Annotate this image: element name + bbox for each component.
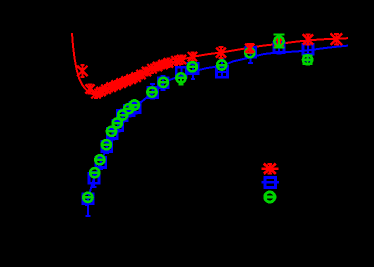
red X data point 3 at (96,93.8) with error bar — [91, 89, 100, 98]
red X data point 14 at (152,68.8) with error bar — [147, 64, 156, 73]
blue square data point 10 at (152.7,92.5) with error bar — [148, 84, 158, 98]
legend: red X sample — [262, 164, 279, 174]
blue square data point 2 at (94,178.3) with error bar — [89, 172, 99, 187]
legend: blue square sample — [262, 178, 280, 188]
blue square data point 3 at (100.7,162.5) with error bar — [96, 156, 106, 169]
red X data point 8 at (121,83.2) with error bar — [116, 79, 125, 88]
green circle data point 6 at (117.3,123) with error bar — [113, 118, 122, 127]
red X data point 15 at (157.5,66.5) with error bar — [153, 62, 162, 71]
blue square data point 4 at (106.6,146.5) with error bar — [102, 140, 112, 153]
red X data point 21 at (221,52.7) with error bar — [216, 47, 226, 58]
red X data point 12 at (141,74.5) with error bar — [136, 70, 145, 79]
red X data point 10 at (131,79.2) with error bar — [126, 75, 135, 84]
green circle data point 10 at (152,92.1) with error bar — [147, 88, 156, 97]
red X data point at x=250 (drawn on top) with error bar — [245, 44, 254, 53]
blue square data point 17 at (308,49.2) with error bar — [303, 41, 313, 60]
blue square data point 13 at (193,68.5) with error bar — [188, 63, 198, 79]
red X data point 11 at (136,77.2) with error bar — [131, 73, 140, 82]
green circle data point 14 at (221.7,65) with error bar — [217, 60, 226, 69]
red X data point 9 at (126,81.2) with error bar — [121, 77, 130, 86]
green circle data point 9 at (134.4,105) with error bar — [130, 100, 139, 109]
red X data point 16 at (163,64.5) with error bar — [158, 60, 167, 69]
red X data point 1 at (82.3,71) with error bar — [77, 65, 87, 77]
green circle data point 8 at (128.7,108.7) with error bar — [124, 104, 133, 113]
red X data point 20 at (192.4,56.7) with error bar — [188, 52, 197, 61]
blue square data point 15 at (250.7,52.2) with error bar — [246, 46, 256, 63]
green circle data point 1 at (87.9,197.4) with error bar — [83, 193, 92, 202]
red X data point 6 at (111,87.2) with error bar — [106, 83, 115, 92]
red X data point 5 at (106,89.3) with error bar — [101, 85, 110, 94]
blue square data point 11 at (163.2,82.8) with error bar — [158, 76, 168, 90]
blue fit curve — [86, 46, 348, 206]
legend: green circle sample — [263, 192, 276, 202]
green circle data point 12 lower error bar — [179, 78, 184, 85]
green circle data point 7 at (122.7,115) with error bar — [118, 110, 127, 119]
red X data point 23 at (307.9,39.5) with error bar — [303, 34, 313, 44]
blue square data point 6 at (117.8,125.5) with error bar — [113, 120, 123, 132]
red X data point 2 at (90,89) with error bar — [85, 84, 94, 93]
red X data point 13 at (146.5,71.5) with error bar — [142, 67, 151, 76]
green circle data point 2 at (94.7,172.7) with error bar — [90, 168, 99, 177]
blue square data point 5 at (112.3,133.5) with error bar — [107, 128, 117, 140]
blue square data point 16 at (279,47.5) with error bar — [274, 40, 284, 54]
red X data point 19 at (181.5,59.6) with error bar — [177, 55, 186, 64]
blue square data point 14 at (222,71.8) with error bar — [217, 59, 228, 77]
red X data point 7 at (116,85.2) with error bar — [111, 81, 120, 90]
red X data point 24 at (336.4,39.2) with error bar — [331, 33, 343, 45]
green circle data point 4 at (106.4,144.7) with error bar — [102, 140, 111, 149]
green circle data point 15 at (249.8,52.7) with error bar — [245, 48, 254, 57]
red X data point 17 at (168.5,62.9) with error bar — [164, 58, 173, 67]
green circle data point 3 at (99.9,159.8) with error bar — [95, 155, 104, 164]
red X data point 4 at (101,91.6) with error bar — [96, 87, 105, 96]
green circle data point 5 at (111.5,131.3) with error bar — [107, 127, 116, 136]
green circle data point 13 at (192.3,66.8) with error bar — [188, 62, 197, 71]
green circle data point 16 at (279,41.2) with error bar — [274, 35, 285, 48]
green circle data point 12 at (181,77.9) with error bar — [176, 73, 185, 82]
red X data point 18 at (176,60.8) with error bar — [171, 56, 180, 65]
red X data point 22 at (279,42.2) with error bar — [275, 38, 283, 46]
blue square data point 12 at (181.4,72.1) with error bar — [176, 67, 186, 78]
red fit curve — [72, 33, 348, 95]
blue square data point 7 at (122.4,115.5) with error bar — [117, 110, 127, 122]
green circle data point 17 at (307.6,59.8) with error bar — [303, 55, 313, 64]
blue square data point 9 at (135,107.5) with error bar — [130, 102, 140, 114]
blue square data point 1 at (88,198.6) with error bar — [83, 194, 93, 216]
green circle data point 11 at (163.3,82.4) with error bar — [159, 78, 168, 87]
blue square data point 8 at (129.2,110.5) with error bar — [124, 105, 134, 117]
